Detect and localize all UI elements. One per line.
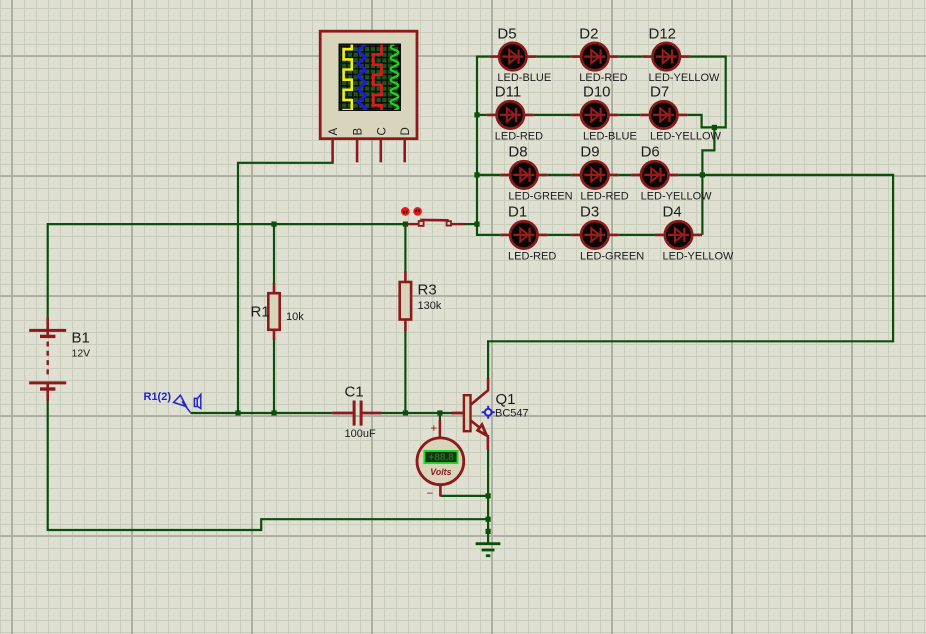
svg-text:LED-RED: LED-RED — [495, 130, 543, 142]
wire lower rail probe to C1 left — [191, 412, 333, 414]
oscilloscope screen — [339, 44, 402, 112]
LED D3 LED-GREEN — [571, 204, 644, 263]
wire voltmeter minus to emitter net — [440, 495, 488, 497]
node marker at Q1 (blue crosshair) — [482, 406, 495, 419]
wire LED matrix left bus vertical — [476, 56, 478, 226]
svg-text:D10: D10 — [583, 84, 611, 101]
wire R3 top — [404, 223, 406, 272]
svg-text:C1: C1 — [345, 384, 364, 401]
oscilloscope pin D — [400, 127, 412, 162]
wire D10 to D7 — [618, 114, 640, 116]
svg-text:Q1: Q1 — [496, 391, 516, 408]
LED D10 LED-BLUE — [571, 84, 636, 143]
scope trace channel D (green sine wave) — [391, 44, 399, 110]
LED D4 LED-YELLOW — [655, 204, 734, 263]
battery B1 12V — [29, 318, 66, 401]
svg-text:LED-RED: LED-RED — [580, 190, 628, 202]
LED D11 LED-RED — [487, 84, 543, 143]
LED D2 LED-RED — [571, 25, 627, 84]
svg-text:−: − — [426, 488, 433, 500]
svg-text:D2: D2 — [579, 25, 598, 42]
resistor R3 — [404, 271, 407, 283]
LED D1 LED-RED — [500, 204, 556, 263]
wire battery positive to switch, net VCC top rail — [48, 223, 406, 225]
svg-text:D11: D11 — [495, 84, 521, 101]
svg-text:100uF: 100uF — [345, 428, 376, 440]
wire D12 right down to row2 junction — [690, 57, 726, 128]
svg-text:D5: D5 — [497, 25, 516, 42]
svg-text:LED-GREEN: LED-GREEN — [580, 250, 644, 262]
wire row1 bus to D5 — [477, 55, 489, 57]
node switch/R3 junction — [403, 222, 408, 227]
wire battery negative vertical — [47, 401, 49, 532]
node emitter/voltmeter junction — [486, 493, 491, 498]
svg-text:LED-BLUE: LED-BLUE — [497, 72, 551, 84]
wire node to voltmeter plus — [439, 413, 441, 422]
node bus row2 junction — [474, 112, 479, 117]
node R3 bottom junction — [403, 410, 408, 415]
svg-text:LED-YELLOW: LED-YELLOW — [663, 250, 735, 262]
svg-text:+88.8: +88.8 — [429, 453, 455, 464]
wire D9 to D6 — [618, 174, 631, 176]
svg-text:130k: 130k — [418, 300, 442, 312]
wire D5 to D2 — [536, 55, 571, 57]
svg-text:D1: D1 — [508, 204, 527, 221]
oscilloscope body — [320, 31, 417, 139]
svg-text:12V: 12V — [72, 347, 91, 359]
wire D6 right around to Q1 collector — [488, 175, 893, 379]
node bus row3 junction — [474, 172, 479, 177]
scope trace channel B (blue triangle wave) — [358, 44, 366, 114]
LED D6 LED-YELLOW — [631, 144, 712, 203]
wire Q1 emitter to ground — [487, 449, 489, 544]
wire row2 bus to D11 — [477, 114, 487, 116]
wire R3 bottom — [404, 330, 406, 413]
svg-text:B: B — [353, 128, 365, 136]
LED D5 LED-BLUE — [489, 25, 551, 84]
svg-text:D9: D9 — [580, 144, 599, 161]
svg-text:D: D — [400, 127, 412, 135]
wire D3 to D4 — [618, 234, 655, 236]
switch up button — [402, 208, 409, 215]
wire switch to LED bus — [464, 223, 477, 225]
svg-text:D8: D8 — [508, 144, 527, 161]
wire D8 to D9 — [547, 174, 571, 176]
node ground rail junction — [486, 517, 491, 522]
svg-text:LED-RED: LED-RED — [508, 250, 556, 262]
scope trace channel A (yellow square wave) — [344, 44, 352, 110]
svg-text:B1: B1 — [72, 329, 90, 346]
svg-text:+: + — [430, 423, 437, 435]
svg-text:LED-YELLOW: LED-YELLOW — [641, 190, 713, 202]
wire R1 bottom — [273, 339, 275, 413]
wire bottom ground return rail — [48, 519, 488, 530]
switch down button — [414, 208, 421, 215]
wire R1 top — [273, 223, 275, 284]
wire battery top vertical — [47, 223, 49, 318]
svg-text:D4: D4 — [663, 204, 682, 221]
transistor Q1 BC547 — [452, 378, 489, 450]
wire bus down to D1 row4 — [477, 223, 500, 235]
ground symbol — [476, 544, 501, 556]
wire C1 right to Q1 base — [382, 412, 453, 414]
LED D8 LED-GREEN — [500, 144, 572, 203]
svg-text:A: A — [328, 128, 340, 136]
node row3 right junction — [700, 172, 705, 177]
wire scope channel A to node — [238, 162, 334, 164]
wire vertical scope-A to base node — [237, 162, 239, 414]
wire D1 to D3 — [547, 234, 571, 236]
svg-text:D7: D7 — [650, 84, 669, 101]
node row1/row2 junction — [712, 125, 717, 130]
node R1 top junction — [271, 222, 276, 227]
oscilloscope pin C — [376, 127, 388, 162]
wire D7 right to row junction — [687, 115, 714, 128]
oscilloscope pin B — [353, 128, 365, 163]
node scope-A lower junction — [235, 410, 240, 415]
svg-text:C: C — [376, 127, 388, 135]
wire row2 junction down to row3 — [702, 127, 714, 176]
node R1 bottom junction — [271, 410, 276, 415]
svg-text:LED-YELLOW: LED-YELLOW — [650, 130, 722, 142]
svg-text:R1(2): R1(2) — [144, 391, 172, 403]
oscilloscope pin A — [328, 128, 340, 163]
LED D7 LED-YELLOW — [640, 84, 721, 143]
resistor R1 — [273, 283, 276, 294]
svg-text:R1: R1 — [251, 304, 270, 321]
svg-text:D12: D12 — [649, 25, 677, 42]
scope trace channel C (red square wave) — [373, 44, 381, 110]
svg-text:BC547: BC547 — [495, 408, 529, 420]
LED D12 LED-YELLOW — [643, 25, 720, 84]
svg-text:LED-RED: LED-RED — [579, 72, 627, 84]
capacitor C1 — [332, 401, 381, 426]
wire row3 bus to D8 — [477, 174, 500, 176]
svg-text:LED-BLUE: LED-BLUE — [583, 130, 637, 142]
svg-text:Volts: Volts — [430, 467, 451, 477]
switch lever and contacts — [405, 220, 464, 226]
wire D11 to D10 — [534, 114, 572, 116]
svg-text:D3: D3 — [580, 204, 599, 221]
node LED bus junction — [474, 222, 479, 227]
svg-text:D6: D6 — [641, 144, 660, 161]
LED D9 LED-RED — [571, 144, 628, 203]
svg-text:R3: R3 — [418, 282, 437, 299]
node ground symbol junction — [486, 529, 491, 534]
svg-text:LED-YELLOW: LED-YELLOW — [649, 72, 721, 84]
wire D2 to D12 — [618, 55, 642, 57]
voltage probe R1(2) — [174, 394, 201, 412]
svg-text:LED-GREEN: LED-GREEN — [508, 190, 572, 202]
svg-text:10k: 10k — [286, 311, 304, 323]
node voltmeter plus junction — [437, 410, 442, 415]
wire row3 junction down to D4 — [701, 175, 703, 235]
voltmeter (DC volts probe) — [417, 420, 464, 500]
